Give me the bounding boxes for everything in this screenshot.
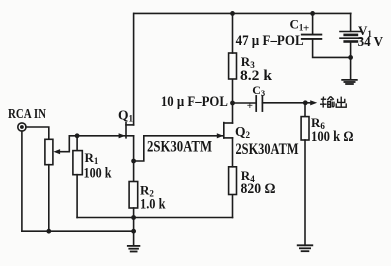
svg-text:10 µ F–POL: 10 µ F–POL bbox=[161, 94, 228, 110]
wire output arrow shaft bbox=[305, 102, 311, 104]
node junction top rail / R3 branch bbox=[230, 11, 235, 16]
ground below V1 bbox=[342, 80, 357, 84]
出 strokes bbox=[340, 97, 342, 107]
svg-text:820 Ω: 820 Ω bbox=[241, 181, 276, 197]
Q2 gate arrowhead bbox=[217, 133, 224, 138]
输 right part body bbox=[328, 102, 331, 108]
node junction R3 / Q2 drain / C3 bbox=[230, 101, 235, 106]
RCA input jack bbox=[18, 123, 26, 131]
wire potentiometer bottom to ground rail bbox=[48, 165, 50, 232]
svg-text:100 k Ω: 100 k Ω bbox=[311, 129, 354, 145]
svg-text:RCA IN: RCA IN bbox=[8, 107, 46, 122]
输 left radical bbox=[321, 98, 326, 100]
wire Q1 source node to Q2 gate bbox=[134, 136, 224, 161]
transistor Q1 2SK30ATM (N-JFET) bbox=[126, 123, 134, 138]
wire Q1 source down to R2 bbox=[133, 136, 135, 182]
node junction pot bottom / ground rail bbox=[46, 229, 51, 234]
battery V1 bbox=[340, 32, 362, 42]
resistor R4 body bbox=[229, 167, 237, 195]
wire RCA shield down bbox=[21, 131, 23, 231]
wire V1 negative to ground bbox=[350, 43, 352, 80]
potentiometer wiper arrowhead bbox=[53, 149, 60, 154]
svg-text:2SK30ATM: 2SK30ATM bbox=[236, 141, 299, 158]
resistor R1 body bbox=[73, 151, 82, 175]
wire R6 top lead bbox=[304, 103, 306, 117]
wire Q2 source to R4 bbox=[232, 138, 234, 167]
resistor R2 body bbox=[129, 182, 138, 209]
wire R1-R4 bottom rail bbox=[77, 217, 232, 219]
wire C3 to output node bbox=[262, 102, 305, 104]
node junction output / R6 bbox=[303, 100, 308, 105]
svg-text:+: + bbox=[247, 100, 253, 112]
wire R3 top to rail bbox=[232, 13, 234, 53]
potentiometer body bbox=[45, 139, 53, 164]
resistor R3 body bbox=[229, 53, 237, 79]
wire C1 bottom to V1 negative bbox=[313, 40, 351, 58]
wire Q2 drain up to node bbox=[232, 103, 234, 123]
svg-text:2SK30ATM: 2SK30ATM bbox=[147, 139, 212, 156]
svg-text:100 k: 100 k bbox=[84, 166, 113, 182]
label output (Chinese 输出) drawn as strokes bbox=[320, 96, 346, 107]
wire top supply rail bbox=[134, 12, 351, 14]
svg-text:8.2 k: 8.2 k bbox=[240, 68, 273, 84]
wire R3 bottom to node bbox=[232, 79, 234, 103]
svg-text:47 µ F–POL: 47 µ F–POL bbox=[236, 33, 304, 49]
wire Q1 drain to rail bbox=[133, 13, 135, 125]
wire RCA to potentiometer top bbox=[26, 127, 49, 139]
输 right part roof bbox=[327, 96, 333, 100]
capacitor C1 top lead bbox=[312, 13, 314, 34]
svg-text:34 V: 34 V bbox=[358, 35, 384, 50]
capacitor C3 left lead bbox=[233, 102, 257, 104]
Q1 gate arrowhead bbox=[119, 133, 126, 138]
wire Q1 gate lead bbox=[69, 135, 125, 137]
capacitor C1 plates bbox=[302, 35, 322, 39]
node junction top rail / C1 branch bbox=[310, 11, 315, 16]
wire bottom ground rail bbox=[22, 230, 134, 232]
node junction ground rail bbox=[131, 229, 136, 234]
resistor R6 body bbox=[301, 117, 309, 140]
wire R1 top lead bbox=[76, 136, 78, 151]
wire V1 positive to rail bbox=[350, 13, 352, 31]
wire R4 bottom lead bbox=[232, 195, 234, 218]
svg-text:1.0 k: 1.0 k bbox=[140, 197, 166, 213]
ground below R6 bbox=[298, 245, 313, 251]
node junction gate wire / R1 top / wiper bbox=[75, 133, 80, 138]
output arrowhead bbox=[310, 100, 317, 105]
transistor Q2 2SK30ATM (N-JFET) bbox=[224, 123, 233, 138]
node junction R2 bottom / R1-R4 rail bbox=[131, 215, 136, 220]
svg-text:+: + bbox=[303, 22, 309, 34]
node junction Q1 source / Q2 gate / R2 bbox=[131, 159, 136, 164]
wire potentiometer wiper to gate node bbox=[59, 136, 69, 152]
ground below R2 bbox=[128, 246, 140, 252]
wire R6 bottom to ground bbox=[304, 140, 306, 245]
capacitor C3 plates bbox=[256, 96, 262, 111]
wire R2 bottom to ground bbox=[133, 208, 135, 246]
node junction C1 / V1 / ground bbox=[348, 55, 353, 60]
wire R1 bottom lead bbox=[76, 175, 78, 218]
